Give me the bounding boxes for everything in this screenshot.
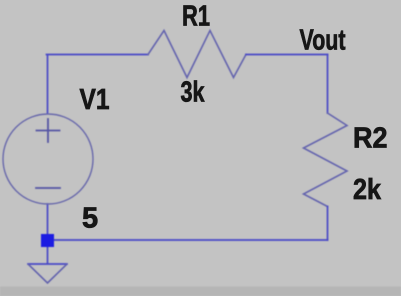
V1 minus sign bbox=[36, 187, 60, 189]
resistor R1 body bbox=[148, 31, 246, 78]
wire right vertical lower bbox=[327, 207, 329, 241]
wire right vertical upper bbox=[327, 55, 329, 114]
wire V1 bottom to ground bbox=[47, 204, 49, 263]
wire top left horizontal bbox=[47, 54, 149, 56]
resistor R2 body bbox=[304, 113, 348, 207]
svg-text:R1: R1 bbox=[182, 0, 210, 32]
wire top right horizontal bbox=[246, 54, 328, 56]
svg-text:3k: 3k bbox=[181, 77, 206, 109]
svg-text:Vout: Vout bbox=[300, 25, 346, 57]
ground bar bbox=[28, 263, 67, 265]
wire bottom horizontal bbox=[54, 239, 328, 241]
V1 plus sign bbox=[37, 119, 60, 142]
svg-text:5: 5 bbox=[82, 203, 98, 235]
svg-text:R2: R2 bbox=[353, 123, 388, 155]
svg-text:V1: V1 bbox=[80, 84, 110, 116]
wire left vertical (V1 top to corner) bbox=[47, 56, 49, 114]
svg-text:2k: 2k bbox=[353, 174, 382, 206]
junction node bbox=[41, 234, 54, 247]
voltage source V1 circle bbox=[3, 114, 93, 204]
ground triangle sides bbox=[29, 265, 67, 284]
